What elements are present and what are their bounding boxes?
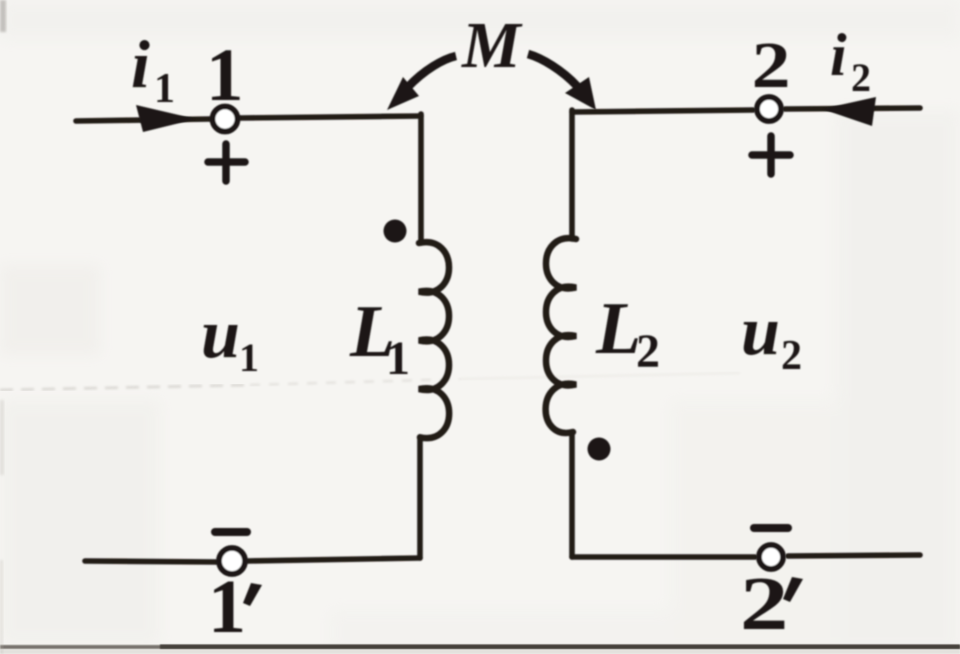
wire: right vertical (corner to L2 top) [569, 110, 575, 239]
svg-text:u: u [741, 293, 780, 370]
svg-text:M: M [461, 9, 523, 82]
wire: terminal 2' lead to right end [788, 555, 920, 556]
svg-text:u: u [201, 296, 240, 373]
wire: L1 bottom to bottom-left corner [417, 438, 423, 558]
svg-text:i: i [830, 22, 847, 88]
wire: bottom-left corner to terminal 1' [248, 558, 420, 561]
terminal 1 [213, 107, 238, 132]
current arrow i1 [136, 105, 196, 132]
bottom page edge line [0, 645, 960, 649]
inductor L2 coil (4 loops) [546, 238, 576, 433]
plus sign at terminal 2 [752, 136, 790, 174]
wire: L2 bottom to bottom-right corner [569, 433, 575, 557]
svg-text:2: 2 [752, 28, 791, 101]
svg-text:2: 2 [781, 333, 802, 379]
wire: terminal 1 to left corner [240, 116, 421, 118]
svg-text:i: i [131, 26, 150, 102]
svg-text:1: 1 [154, 66, 175, 112]
svg-text:2: 2 [636, 325, 660, 378]
minus sign at terminal 2' [754, 524, 788, 532]
terminal 2' [759, 545, 783, 569]
svg-text:L: L [595, 288, 641, 370]
svg-text:1: 1 [206, 34, 244, 117]
left edge smudges [0, 0, 6, 32]
current arrow i2 [822, 97, 876, 126]
wire: bottom-right corner to terminal 2' [572, 554, 755, 560]
wire: terminal 1' lead to left [85, 561, 216, 562]
faint scan streak [0, 385, 250, 390]
polarity dot of L2 [588, 438, 611, 461]
wire: top-left lead into terminal 1 [76, 119, 210, 121]
terminal 1' [219, 548, 245, 574]
minus sign at terminal 1' [215, 528, 247, 536]
svg-text:1: 1 [208, 565, 246, 649]
svg-text:1: 1 [239, 335, 259, 380]
polarity dot of L1 [384, 220, 407, 243]
M coupling arrow left [408, 56, 456, 87]
wire: left corner to terminal 2 [572, 110, 753, 112]
svg-text:2: 2 [851, 55, 871, 100]
inductor L1 coil (4 loops) [419, 242, 449, 438]
wire: left vertical (corner to L1 top) [418, 114, 424, 243]
svg-text:1: 1 [386, 332, 410, 385]
plus sign at terminal 1 [208, 144, 245, 181]
svg-text:2: 2 [740, 561, 789, 645]
M coupling arrow right [528, 54, 577, 86]
terminal 2 [757, 97, 781, 121]
wire: terminal 2 to right end [785, 108, 920, 109]
